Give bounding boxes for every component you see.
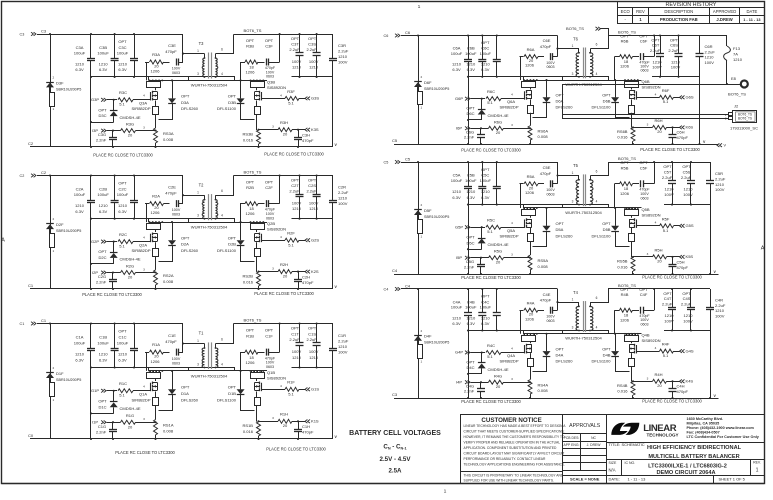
svg-text:6.3V: 6.3V	[118, 209, 127, 214]
capacitor C5A	[468, 162, 470, 186]
svg-text:T2: T2	[199, 183, 204, 188]
svg-text:100V: 100V	[292, 349, 302, 354]
svg-text:CMDSH-4E: CMDSH-4E	[487, 242, 508, 247]
svg-text:R2H: R2H	[280, 262, 288, 267]
svg-text:C4: C4	[405, 283, 411, 288]
package Q2B source	[255, 249, 261, 257]
svg-text:C4: C4	[384, 287, 389, 291]
svg-text:ECO: ECO	[621, 9, 631, 14]
svg-text:1210: 1210	[466, 189, 476, 194]
svg-text:1210: 1210	[99, 203, 109, 208]
svg-text:PLACE RC CLOSE TO LTC3300: PLACE RC CLOSE TO LTC3300	[642, 399, 702, 404]
svg-text:I6P: I6P	[456, 126, 462, 131]
svg-text:WURTH-750312504: WURTH-750312504	[565, 210, 602, 215]
diode D4F	[414, 335, 422, 337]
svg-text:G4P: G4P	[455, 350, 463, 355]
svg-text:D3F: D3F	[56, 81, 64, 86]
svg-text:6.3V: 6.3V	[75, 209, 84, 214]
wire secondary bottom	[216, 219, 235, 223]
svg-text:OPT: OPT	[639, 287, 648, 292]
svg-text:2.2uF: 2.2uF	[662, 175, 673, 180]
diode D1C	[113, 391, 115, 402]
svg-text:C3S: C3S	[308, 42, 316, 47]
svg-text:OPT: OPT	[181, 235, 190, 240]
svg-text:DEMO CIRCUIT 2064A: DEMO CIRCUIT 2064A	[656, 470, 715, 476]
resistor RS3B sense	[257, 130, 261, 144]
wire left branch	[50, 324, 52, 440]
transistor Q4A	[523, 333, 525, 335]
svg-text:20: 20	[283, 132, 288, 137]
svg-text:I5P: I5P	[456, 255, 462, 260]
wire primary riser	[557, 289, 559, 310]
svg-text:R6C: R6C	[487, 89, 495, 94]
svg-text:1206: 1206	[246, 70, 256, 75]
svg-text:1206: 1206	[620, 191, 630, 196]
svg-text:100uF: 100uF	[451, 51, 463, 56]
wire gate	[471, 227, 486, 229]
node K4S output connector	[680, 380, 682, 384]
resistor R6C	[486, 97, 501, 101]
svg-text:D2F: D2F	[56, 222, 64, 227]
capacitor C2C	[134, 176, 136, 201]
diode D1A	[172, 371, 174, 389]
wire BOT6 top bus	[608, 288, 710, 290]
svg-text:100V: 100V	[664, 318, 674, 323]
svg-text:5.1: 5.1	[663, 99, 669, 104]
svg-text:C3C: C3C	[118, 45, 126, 50]
svg-text:C5F: C5F	[640, 165, 648, 170]
svg-text:R6F: R6F	[662, 88, 670, 93]
wire drain bus	[149, 80, 267, 82]
svg-text:R3C: R3C	[119, 90, 127, 95]
package Q3A source	[153, 107, 159, 115]
svg-text:470pF: 470pF	[302, 138, 314, 143]
svg-text:WURTH-750312504: WURTH-750312504	[565, 336, 602, 341]
svg-text:D6F: D6F	[424, 80, 432, 85]
svg-text:4: 4	[221, 362, 223, 366]
svg-text:2.2uF: 2.2uF	[650, 48, 661, 53]
svg-text:0.008: 0.008	[163, 279, 174, 284]
svg-text:1 - 11 - 13: 1 - 11 - 13	[628, 477, 647, 482]
wire CnF riser	[279, 176, 281, 204]
node V output connector block6	[717, 143, 719, 147]
resistor R4A	[520, 310, 524, 312]
resistor R6G	[489, 126, 504, 130]
svg-text:CMDSH-4E: CMDSH-4E	[119, 115, 140, 120]
svg-text:SBR10U200P5: SBR10U200P5	[424, 215, 449, 219]
wire primary riser	[182, 324, 184, 353]
svg-text:100V: 100V	[705, 60, 715, 65]
diode D2A	[172, 222, 174, 240]
svg-text:0.008: 0.008	[538, 388, 549, 393]
svg-text:2.2uF: 2.2uF	[338, 338, 349, 343]
svg-text:1210: 1210	[292, 206, 302, 211]
diode D4A	[546, 334, 548, 351]
svg-text:MULTICELL BATTERY BALANCER: MULTICELL BATTERY BALANCER	[648, 454, 739, 460]
node K6S output connector	[680, 126, 682, 130]
svg-text:APPROVED: APPROVED	[713, 9, 736, 14]
svg-text:D2C: D2C	[98, 255, 106, 260]
bottom border emphasis	[2, 483, 765, 485]
svg-text:OPT: OPT	[466, 106, 475, 111]
svg-text:G4S: G4S	[686, 348, 694, 353]
svg-text:6.3V: 6.3V	[99, 67, 108, 72]
svg-text:APPLICATION. COMPONENT SUBSTI: APPLICATION. COMPONENT SUBSTITUTION AND …	[464, 446, 558, 450]
svg-text:C3H: C3H	[302, 132, 310, 137]
svg-text:C6A: C6A	[453, 46, 461, 51]
node G4S output connector	[680, 349, 682, 353]
diode D1B	[240, 371, 242, 389]
resistor RS5B sense	[631, 257, 635, 271]
svg-text:CUSTOMER NOTICE: CUSTOMER NOTICE	[481, 417, 541, 424]
svg-text:RS2A: RS2A	[163, 273, 174, 278]
svg-text:C2B: C2B	[99, 186, 107, 191]
svg-text:C5: C5	[392, 138, 398, 143]
diode D5C	[481, 227, 483, 238]
svg-text:TECHNOLOGY APPLICATIONS ENGINE: TECHNOLOGY APPLICATIONS ENGINEERING FOR …	[464, 463, 566, 467]
svg-text:Q6A: Q6A	[507, 99, 515, 104]
wire secondary bottom	[591, 77, 609, 81]
svg-text:0603: 0603	[172, 213, 180, 217]
svg-text:K1S: K1S	[311, 419, 319, 424]
svg-text:100V: 100V	[309, 349, 319, 354]
svg-text:HIGH EFFICIENCY BIDIRECTIONAL: HIGH EFFICIENCY BIDIRECTIONAL	[647, 445, 742, 451]
svg-text:2.2nF: 2.2nF	[96, 280, 107, 285]
svg-text:C1E: C1E	[168, 333, 176, 338]
capacitor C1R	[332, 324, 334, 349]
svg-text:C4B: C4B	[467, 299, 475, 304]
svg-text:C5S: C5S	[683, 169, 691, 174]
svg-text:1210: 1210	[338, 54, 348, 59]
svg-text:Milpitas, CA 95035: Milpitas, CA 95035	[687, 421, 720, 425]
svg-text:WURTH-750312504: WURTH-750312504	[191, 83, 228, 88]
capacitor C6G	[480, 128, 482, 135]
package Q1B source	[255, 398, 261, 406]
svg-text:SBR10U200P5: SBR10U200P5	[424, 87, 449, 91]
svg-text:7A: 7A	[733, 52, 738, 57]
svg-text:2.2nF: 2.2nF	[96, 138, 107, 143]
svg-text:DFLS260: DFLS260	[556, 359, 574, 364]
svg-text:DATE: DATE	[746, 9, 757, 14]
svg-text:6.3V: 6.3V	[452, 321, 461, 326]
svg-text:0.008: 0.008	[538, 264, 549, 269]
svg-text:DFLS260: DFLS260	[181, 397, 199, 402]
svg-text:20: 20	[128, 275, 133, 280]
svg-text:100V: 100V	[338, 350, 348, 355]
node G1S output connector	[305, 388, 307, 392]
capacitor C4R	[710, 289, 712, 307]
svg-text:OPT: OPT	[265, 180, 274, 185]
svg-text:100uF: 100uF	[117, 340, 129, 345]
capacitor C2T	[299, 176, 301, 195]
svg-text:C4F: C4F	[640, 292, 648, 297]
wire bottom bus	[30, 438, 333, 440]
svg-text:T3: T3	[199, 41, 204, 46]
svg-text:WURTH-750312504: WURTH-750312504	[191, 373, 228, 378]
svg-text:1210: 1210	[292, 65, 302, 70]
svg-text:C1A: C1A	[76, 335, 84, 340]
svg-text:6.3V: 6.3V	[99, 358, 108, 363]
svg-text:0603: 0603	[266, 365, 274, 369]
svg-text:RS3A: RS3A	[163, 131, 174, 136]
svg-text:F13: F13	[733, 46, 741, 51]
wire left branch	[418, 289, 420, 398]
svg-text:6: 6	[596, 296, 598, 300]
wire secondary bottom	[591, 331, 609, 334]
svg-text:100uF: 100uF	[97, 192, 109, 197]
svg-text:1206: 1206	[525, 190, 535, 195]
svg-text:100V: 100V	[715, 314, 725, 319]
wire J2 harness	[562, 84, 564, 118]
svg-text:3: 3	[572, 72, 574, 76]
svg-text:C2H: C2H	[302, 274, 310, 279]
wire mid bus	[91, 367, 234, 369]
svg-text:C1: C1	[41, 318, 47, 323]
approvals box	[563, 415, 607, 484]
svg-text:C4G: C4G	[466, 383, 474, 388]
svg-text:C6B: C6B	[467, 46, 475, 51]
svg-text:Q5A: Q5A	[507, 228, 515, 233]
capacitor C1T	[299, 324, 301, 343]
wire RC row	[107, 130, 121, 132]
svg-text:470pF: 470pF	[302, 280, 314, 285]
svg-text:D5A: D5A	[556, 227, 564, 232]
svg-text:2.2uF: 2.2uF	[662, 301, 673, 306]
svg-text:0.016: 0.016	[243, 429, 254, 434]
svg-text:Fax: (408)434-0507: Fax: (408)434-0507	[687, 430, 720, 434]
svg-text:K4S: K4S	[686, 379, 694, 384]
svg-text:C5B: C5B	[467, 173, 475, 178]
package Q5A source	[528, 234, 534, 242]
svg-text:179313000_SC: 179313000_SC	[730, 125, 758, 130]
svg-text:100uF: 100uF	[97, 50, 109, 55]
svg-text:100V: 100V	[309, 59, 319, 64]
svg-text:C4R: C4R	[715, 298, 723, 303]
diode D6F	[414, 81, 422, 83]
svg-text:6.3V: 6.3V	[75, 67, 84, 72]
node K1S output connector	[305, 420, 307, 424]
svg-text:SIZE: SIZE	[609, 461, 617, 465]
svg-text:2.2nF: 2.2nF	[96, 429, 107, 434]
svg-text:3: 3	[572, 326, 574, 330]
wire right mid bus	[664, 204, 710, 206]
svg-text:C3G: C3G	[98, 132, 106, 137]
capacitor C2G	[112, 273, 114, 280]
svg-text:0603: 0603	[546, 319, 554, 323]
svg-text:R3H: R3H	[280, 120, 288, 125]
diode D5A	[546, 208, 548, 226]
svg-text:3: 3	[197, 362, 199, 366]
svg-text:1210: 1210	[665, 187, 675, 192]
svg-text:Q3A: Q3A	[139, 101, 147, 106]
capacitor C2H	[297, 271, 299, 273]
resistor R3A	[145, 62, 149, 64]
svg-text:0.016: 0.016	[243, 279, 254, 284]
wire cell return branch	[468, 205, 470, 274]
svg-text:C4T: C4T	[664, 296, 672, 301]
transistor Q1A	[149, 370, 151, 372]
wire gate	[107, 390, 117, 392]
svg-text:C2T: C2T	[291, 183, 299, 188]
resistor R1G	[121, 420, 136, 424]
resistor R3H	[257, 129, 259, 131]
svg-text:OPT: OPT	[620, 33, 629, 38]
wire mid bus	[468, 204, 609, 206]
resistor RS1A sense	[154, 420, 158, 435]
svg-text:1210: 1210	[309, 206, 319, 211]
svg-text:D4F: D4F	[424, 334, 432, 339]
svg-text:6.3V: 6.3V	[99, 209, 108, 214]
capacitor C1B	[114, 324, 116, 349]
capacitor C6A	[468, 36, 470, 60]
transistor Q5B	[624, 207, 626, 209]
svg-text:C6T: C6T	[652, 43, 660, 48]
svg-text:1210: 1210	[665, 313, 675, 318]
resistor R6B	[615, 56, 620, 58]
svg-text:Q2A: Q2A	[139, 242, 147, 247]
svg-text:OPT: OPT	[663, 291, 672, 296]
svg-text:4: 4	[221, 214, 223, 218]
svg-text:SIS892DN: SIS892DN	[267, 227, 286, 232]
capacitor C4C	[496, 289, 498, 313]
capacitor C1F	[266, 349, 268, 356]
diode D5F	[414, 209, 422, 211]
package Q1A source	[153, 398, 159, 406]
svg-text:R3A: R3A	[152, 52, 160, 57]
capacitor C3C	[134, 34, 136, 59]
svg-text:C4E: C4E	[543, 292, 551, 297]
svg-text:470pF: 470pF	[540, 44, 552, 49]
wire top bus	[401, 162, 558, 164]
svg-text:5.1: 5.1	[288, 101, 294, 106]
svg-text:D5C: D5C	[466, 240, 474, 245]
svg-text:100uF: 100uF	[480, 305, 492, 310]
wire primary riser	[182, 176, 184, 204]
transistor Q6B	[624, 79, 626, 81]
svg-text:K2S: K2S	[311, 269, 319, 274]
svg-text:PLACE RC CLOSE TO LTC3300: PLACE RC CLOSE TO LTC3300	[82, 292, 142, 297]
svg-text:SIR882DP: SIR882DP	[499, 105, 518, 110]
node G2S output connector	[305, 238, 307, 242]
resistor RS3A sense	[154, 128, 158, 143]
wire bottom bus	[394, 274, 719, 276]
svg-text:R6B: R6B	[621, 39, 629, 44]
wire BOT6 top bus	[608, 35, 700, 37]
svg-text:R4G: R4G	[494, 373, 502, 378]
svg-text:100uF: 100uF	[480, 178, 492, 183]
node K5S output connector	[680, 255, 682, 259]
svg-text:SIS892DN: SIS892DN	[267, 85, 286, 90]
svg-text:DATE:: DATE:	[609, 477, 620, 482]
resistor R4C	[486, 350, 501, 354]
svg-text:R1H: R1H	[280, 412, 288, 417]
svg-text:OPT: OPT	[98, 249, 107, 254]
svg-text:PRODUCTION FAB: PRODUCTION FAB	[660, 17, 698, 22]
svg-text:OPT: OPT	[556, 221, 565, 226]
wire secondary top	[216, 35, 234, 54]
svg-text:C3: C3	[41, 28, 47, 33]
svg-text:1210: 1210	[309, 355, 319, 360]
svg-text:R5G: R5G	[494, 249, 502, 254]
svg-text:RS6A: RS6A	[538, 129, 549, 134]
svg-text:100V: 100V	[292, 59, 302, 64]
svg-text:1: 1	[572, 171, 574, 175]
svg-text:20: 20	[283, 273, 288, 278]
transistor Q5A	[523, 207, 525, 209]
svg-text:2.2uF: 2.2uF	[681, 301, 692, 306]
svg-text:OPT: OPT	[246, 38, 255, 43]
svg-text:TITLE: SCHEMATIC: TITLE: SCHEMATIC	[609, 442, 645, 447]
capacitor C6E	[550, 53, 552, 60]
svg-text:OPT: OPT	[181, 94, 190, 99]
svg-text:OPT: OPT	[246, 328, 255, 333]
wire top bus	[37, 34, 183, 36]
svg-text:C3: C3	[392, 392, 398, 397]
capacitor C3B	[114, 34, 116, 59]
wire top bus	[401, 288, 558, 290]
svg-text:RS6B: RS6B	[617, 129, 628, 134]
svg-text:100V: 100V	[172, 67, 181, 71]
svg-text:A: A	[1, 238, 5, 244]
svg-text:IC NO.: IC NO.	[625, 461, 636, 465]
svg-text:LINEAR TECHNOLOGY HAS MADE A B: LINEAR TECHNOLOGY HAS MADE A BEST EFFORT…	[464, 424, 567, 428]
svg-text:100uF: 100uF	[74, 340, 86, 345]
svg-text:1210: 1210	[705, 55, 715, 60]
svg-text:5.1: 5.1	[663, 353, 669, 358]
capacitor C4T	[672, 289, 674, 307]
transistor Q6A	[523, 79, 525, 81]
svg-text:D1B: D1B	[228, 391, 236, 396]
svg-text:APP ENG:: APP ENG:	[564, 443, 580, 447]
capacitor C1C	[134, 324, 136, 349]
svg-text:20: 20	[283, 423, 288, 428]
svg-text:PLACE RC CLOSE TO LTC3300: PLACE RC CLOSE TO LTC3300	[266, 447, 326, 452]
transistor Q1B	[250, 370, 252, 372]
wire secondary top	[216, 324, 234, 344]
svg-text:Q3B: Q3B	[267, 80, 275, 85]
svg-text:C3E: C3E	[168, 43, 176, 48]
svg-text:SUPPLIED FOR USE WITH LINEAR T: SUPPLIED FOR USE WITH LINEAR TECHNOLOGY …	[464, 478, 555, 482]
svg-text:D5F: D5F	[424, 208, 432, 213]
svg-text:OPT: OPT	[663, 164, 672, 169]
capacitor C5T	[672, 162, 674, 181]
svg-text:OPT: OPT	[639, 33, 648, 38]
svg-text:DESCRIPTION: DESCRIPTION	[664, 9, 693, 14]
svg-text:R4F: R4F	[662, 342, 670, 347]
svg-text:100V: 100V	[172, 208, 181, 212]
svg-text:100uF: 100uF	[465, 51, 477, 56]
resistor R5G	[489, 256, 504, 260]
svg-text:SIS892DN: SIS892DN	[267, 376, 286, 381]
capacitor C1E	[176, 349, 178, 356]
svg-text:CIRCUIT THAT MEETS CUSTOMER-SU: CIRCUIT THAT MEETS CUSTOMER-SUPPLIED SPE…	[464, 429, 565, 433]
svg-text:0.016: 0.016	[617, 135, 628, 140]
svg-text:3: 3	[197, 214, 199, 218]
wire right mid bus	[664, 330, 710, 332]
svg-text:2.2nF: 2.2nF	[464, 265, 475, 270]
wire gate	[471, 98, 486, 100]
resistor R2F	[262, 240, 285, 242]
capacitor C6R	[699, 36, 701, 54]
wire secondary top	[591, 163, 609, 176]
resistor RS2B sense	[257, 272, 261, 286]
svg-text:0603: 0603	[172, 361, 180, 365]
svg-text:G5S: G5S	[686, 223, 694, 228]
svg-text:PERFORMANCE OR RELIABILITY. C: PERFORMANCE OR RELIABILITY. CONTACT LINE…	[464, 457, 547, 461]
svg-text:100V: 100V	[546, 188, 555, 192]
svg-text:DFLS260: DFLS260	[181, 106, 199, 111]
capacitor C3G	[112, 131, 114, 138]
